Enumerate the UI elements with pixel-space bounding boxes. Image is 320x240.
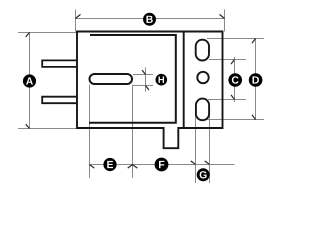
- dim H extension top: [133, 74, 153, 76]
- arrow H top: [142, 70, 145, 74]
- dim E/F shared extension: [132, 85, 134, 179]
- divider line: [183, 32, 185, 129]
- dim H extension bottom: [133, 85, 153, 87]
- top prong: [42, 60, 77, 67]
- dim C extension bottom: [208, 99, 246, 101]
- arrow A top: [26, 33, 30, 37]
- dim G extension right: [209, 104, 211, 183]
- dim D line: [255, 39, 257, 120]
- arrow D bottom: [252, 115, 256, 120]
- bottom prong: [42, 97, 77, 104]
- dim F/G shared extension: [195, 104, 197, 183]
- top obround hole: [196, 40, 209, 61]
- arrow F right: [191, 161, 196, 165]
- arrow A bottom: [26, 124, 30, 128]
- inner detail C-channel: [89, 35, 176, 123]
- dim A extension bottom: [18, 128, 77, 130]
- label C: [228, 73, 242, 87]
- arrow C bottom: [231, 95, 235, 100]
- label H: [156, 74, 168, 86]
- middle circle hole: [197, 72, 208, 83]
- dim C line: [234, 57, 236, 102]
- label E: [103, 158, 116, 171]
- dim B line: [76, 18, 225, 20]
- dim D extension top: [207, 38, 264, 40]
- dim B extension left: [75, 10, 77, 32]
- arrow F left: [133, 165, 138, 169]
- dim A extension top: [18, 32, 77, 34]
- arrow B right: [220, 14, 225, 18]
- dim A line: [29, 33, 31, 129]
- arrow G right: [205, 161, 210, 165]
- arrow E right: [128, 165, 133, 169]
- bottom obround hole: [196, 99, 209, 121]
- dim B extension right: [224, 10, 226, 32]
- label D: [249, 73, 263, 87]
- component body outline with bottom tab: [77, 32, 223, 149]
- dim D extension bottom: [207, 119, 264, 121]
- arrow H bottom: [146, 86, 149, 90]
- label G: [197, 168, 210, 181]
- arrow B left: [76, 14, 81, 18]
- dim H line: [145, 68, 147, 92]
- dim E extension left: [89, 85, 91, 179]
- label B: [143, 13, 156, 26]
- label F: [155, 158, 169, 172]
- dim E/F/G line: [90, 164, 235, 166]
- arrow D top: [252, 39, 256, 44]
- slot: [90, 74, 133, 84]
- arrow C top: [231, 60, 235, 65]
- arrow E left: [90, 165, 95, 169]
- dim C extension top: [209, 59, 246, 61]
- label A: [23, 74, 36, 87]
